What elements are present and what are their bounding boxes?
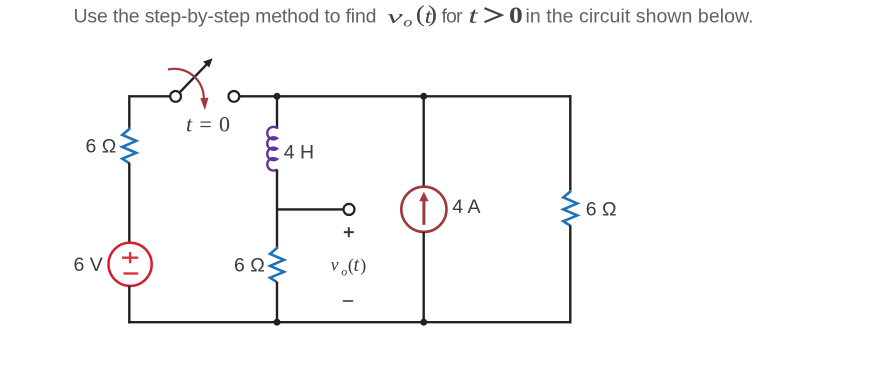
wire: right branch lower bbox=[569, 225, 571, 323]
svg-text:): ) bbox=[360, 255, 366, 276]
wire: top-left horizontal from corner to switch bbox=[129, 95, 170, 97]
junction node bottom current-source bbox=[420, 319, 427, 326]
terminal node vo bbox=[344, 204, 355, 215]
svg-text:t: t bbox=[468, 3, 478, 29]
resistor R2 6ohm middle bbox=[270, 247, 284, 283]
svg-text:for: for bbox=[442, 6, 464, 28]
svg-text:6 Ω: 6 Ω bbox=[586, 198, 617, 220]
resistor R3 6ohm right bbox=[563, 190, 577, 226]
wire: top rail from switch to right corner bbox=[239, 95, 571, 97]
svg-text:v: v bbox=[387, 7, 403, 28]
svg-text:v: v bbox=[331, 255, 339, 275]
junction node top current-source bbox=[420, 93, 427, 100]
junction node bottom-middle bbox=[274, 319, 281, 326]
switch motion arc arrow bbox=[168, 69, 209, 110]
label vo(t) bbox=[331, 254, 367, 278]
svg-text:t = 0: t = 0 bbox=[186, 112, 230, 137]
inductor L1 4H bbox=[267, 127, 277, 171]
wire: current source branch upper bbox=[423, 96, 425, 187]
wire: bottom rail bbox=[128, 321, 571, 323]
wire: left branch upper segment bbox=[128, 95, 130, 128]
current source I1 4A bbox=[401, 187, 446, 232]
wire: middle branch below resistor bbox=[276, 282, 278, 322]
svg-text:in the circuit shown below.: in the circuit shown below. bbox=[526, 6, 754, 28]
svg-text:o: o bbox=[403, 15, 412, 29]
svg-text:4 H: 4 H bbox=[284, 141, 314, 163]
wire: middle branch between inductor and resistor bbox=[276, 169, 278, 247]
wire: right branch upper bbox=[569, 95, 571, 191]
voltage source V1 6V bbox=[109, 243, 152, 286]
svg-text:0: 0 bbox=[509, 3, 523, 28]
wire: current source branch lower bbox=[423, 232, 425, 322]
svg-text:): ) bbox=[428, 2, 437, 27]
wire: middle branch above inductor bbox=[276, 96, 278, 129]
junction node top-middle bbox=[274, 93, 281, 100]
label minus bbox=[343, 300, 353, 302]
switch SW1 t=0 bbox=[170, 58, 239, 102]
wire: left branch between resistor and source bbox=[128, 163, 130, 244]
svg-text:o: o bbox=[341, 264, 347, 278]
title text bbox=[74, 2, 754, 30]
svg-text:6 Ω: 6 Ω bbox=[86, 135, 117, 157]
svg-text:4 A: 4 A bbox=[452, 196, 480, 218]
svg-text:t: t bbox=[354, 254, 360, 276]
label plus bbox=[344, 227, 354, 237]
resistor R1 6ohm left bbox=[122, 128, 136, 164]
wire: left branch below source bbox=[128, 286, 130, 324]
wire: stub to output terminal bbox=[277, 208, 344, 210]
svg-text:Use the step-by-step method to: Use the step-by-step method to find bbox=[74, 6, 377, 28]
svg-text:6 V: 6 V bbox=[74, 254, 103, 276]
svg-text:6 Ω: 6 Ω bbox=[234, 255, 265, 277]
